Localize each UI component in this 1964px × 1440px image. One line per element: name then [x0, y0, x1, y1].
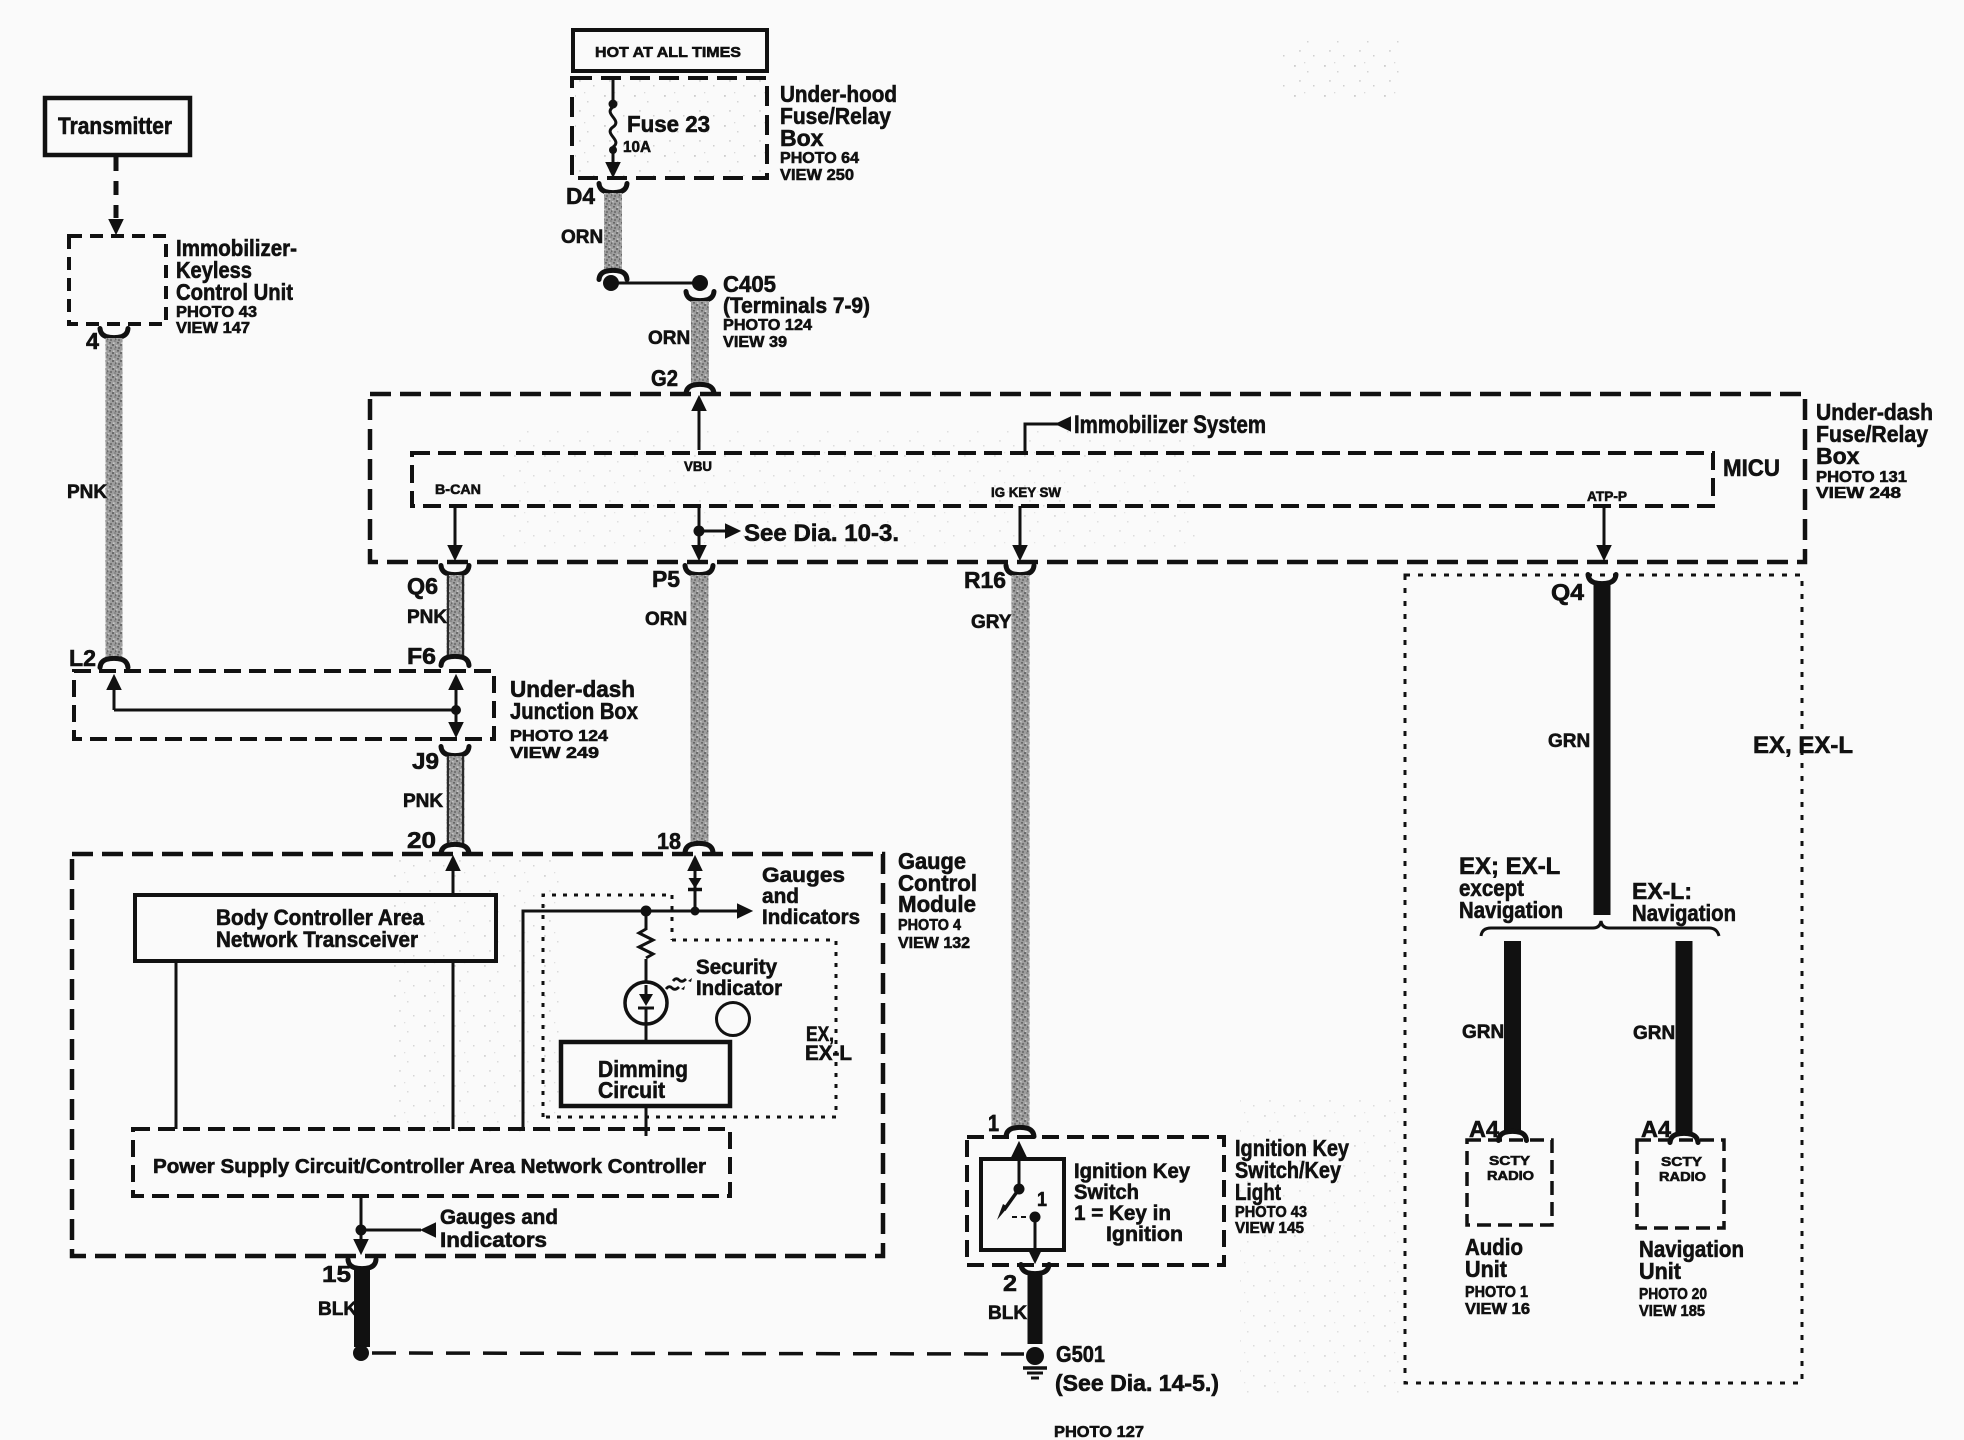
svg-text:B-CAN: B-CAN: [435, 481, 481, 497]
svg-text:PHOTO 20: PHOTO 20: [1639, 1286, 1707, 1303]
svg-text:PHOTO 43: PHOTO 43: [176, 304, 257, 321]
svg-text:A4: A4: [1641, 1116, 1671, 1142]
svg-text:Q6: Q6: [407, 573, 438, 599]
svg-text:VIEW 248: VIEW 248: [1816, 485, 1901, 502]
svg-text:Unit: Unit: [1465, 1256, 1507, 1282]
svg-text:EX, EX-L: EX, EX-L: [1753, 732, 1853, 759]
svg-text:PHOTO 4: PHOTO 4: [898, 917, 961, 934]
svg-text:PHOTO 131: PHOTO 131: [1816, 469, 1907, 486]
svg-text:(See Dia. 14-5.): (See Dia. 14-5.): [1055, 1370, 1219, 1396]
svg-text:EX-L: EX-L: [805, 1042, 852, 1065]
svg-text:PNK: PNK: [403, 791, 443, 812]
svg-text:PHOTO 1: PHOTO 1: [1465, 1284, 1528, 1301]
svg-text:IG KEY SW: IG KEY SW: [991, 484, 1062, 500]
svg-text:VIEW 39: VIEW 39: [723, 334, 787, 351]
svg-text:PHOTO 127: PHOTO 127: [1054, 1424, 1144, 1440]
svg-text:Gauges and: Gauges and: [440, 1206, 558, 1229]
svg-text:ATP-P: ATP-P: [1587, 488, 1627, 504]
svg-text:Junction Box: Junction Box: [510, 698, 638, 724]
svg-text:VIEW 145: VIEW 145: [1235, 1220, 1304, 1237]
svg-text:Q4: Q4: [1551, 579, 1584, 605]
svg-text:SCTY: SCTY: [1489, 1153, 1530, 1168]
svg-text:Transmitter: Transmitter: [58, 113, 172, 140]
svg-text:BLK: BLK: [318, 1299, 357, 1320]
svg-text:RADIO: RADIO: [1659, 1169, 1706, 1184]
svg-text:Unit: Unit: [1639, 1258, 1681, 1284]
svg-text:SCTY: SCTY: [1661, 1154, 1702, 1169]
svg-text:Control Unit: Control Unit: [176, 279, 293, 305]
svg-text:GRN: GRN: [1548, 731, 1590, 752]
svg-text:Box: Box: [1816, 443, 1860, 469]
svg-text:Module: Module: [898, 891, 976, 917]
svg-text:20: 20: [407, 827, 436, 853]
svg-text:HOT AT ALL TIMES: HOT AT ALL TIMES: [595, 44, 741, 61]
svg-text:Navigation: Navigation: [1632, 900, 1736, 926]
svg-text:and: and: [762, 885, 799, 908]
svg-text:Security: Security: [696, 956, 777, 979]
svg-text:Gauges: Gauges: [762, 864, 845, 887]
svg-text:Indicators: Indicators: [440, 1229, 547, 1252]
svg-text:4: 4: [86, 328, 99, 354]
svg-text:VIEW 250: VIEW 250: [780, 167, 854, 184]
svg-text:Ignition Key: Ignition Key: [1074, 1160, 1190, 1183]
svg-text:R16: R16: [964, 567, 1006, 593]
svg-text:J9: J9: [412, 748, 439, 774]
svg-text:18: 18: [657, 828, 681, 854]
svg-text:GRN: GRN: [1633, 1023, 1675, 1044]
svg-text:(Terminals 7-9): (Terminals 7-9): [723, 293, 870, 318]
svg-text:1 = Key in: 1 = Key in: [1074, 1202, 1171, 1225]
svg-text:VIEW 249: VIEW 249: [510, 745, 599, 762]
svg-text:15: 15: [322, 1261, 351, 1287]
svg-text:VIEW 185: VIEW 185: [1639, 1303, 1705, 1320]
svg-text:VIEW 132: VIEW 132: [898, 935, 970, 952]
svg-text:PNK: PNK: [407, 607, 447, 628]
svg-text:BLK: BLK: [988, 1303, 1027, 1324]
svg-text:Light: Light: [1235, 1179, 1281, 1205]
svg-text:1: 1: [988, 1110, 999, 1136]
svg-text:GRN: GRN: [1462, 1022, 1504, 1043]
svg-text:PNK: PNK: [67, 482, 107, 503]
svg-text:PHOTO 124: PHOTO 124: [723, 317, 812, 334]
svg-text:VIEW 147: VIEW 147: [176, 320, 250, 337]
svg-text:G501: G501: [1056, 1341, 1105, 1367]
svg-text:1: 1: [1037, 1189, 1047, 1211]
svg-text:Immobilizer System: Immobilizer System: [1074, 411, 1266, 439]
svg-text:Fuse 23: Fuse 23: [627, 111, 710, 137]
svg-text:See Dia. 10-3.: See Dia. 10-3.: [744, 520, 899, 547]
svg-text:Power Supply Circuit/Controlle: Power Supply Circuit/Controller Area Net…: [153, 1156, 706, 1178]
svg-text:PHOTO 124: PHOTO 124: [510, 728, 608, 745]
svg-text:Indicators: Indicators: [762, 906, 860, 929]
svg-text:Navigation: Navigation: [1459, 897, 1563, 923]
svg-text:A4: A4: [1469, 1116, 1499, 1142]
svg-text:2: 2: [1003, 1270, 1017, 1296]
svg-text:PHOTO 64: PHOTO 64: [780, 150, 859, 167]
svg-text:GRY: GRY: [971, 612, 1012, 633]
svg-text:Switch: Switch: [1074, 1181, 1139, 1204]
svg-text:ORN: ORN: [648, 328, 690, 349]
svg-text:D4: D4: [566, 183, 595, 209]
svg-text:G2: G2: [651, 365, 678, 391]
svg-text:VBU: VBU: [684, 458, 712, 474]
svg-text:Ignition: Ignition: [1106, 1223, 1183, 1246]
svg-text:ORN: ORN: [561, 227, 603, 248]
svg-text:VIEW 16: VIEW 16: [1465, 1301, 1530, 1318]
svg-text:L2: L2: [69, 645, 96, 671]
svg-text:ORN: ORN: [645, 609, 687, 630]
svg-text:Indicator: Indicator: [696, 977, 782, 1000]
svg-text:Box: Box: [780, 125, 824, 151]
svg-text:10A: 10A: [623, 139, 651, 156]
svg-text:F6: F6: [407, 643, 436, 669]
svg-text:PHOTO 43: PHOTO 43: [1235, 1204, 1307, 1221]
svg-text:RADIO: RADIO: [1487, 1168, 1534, 1183]
svg-text:P5: P5: [652, 566, 680, 592]
svg-text:MICU: MICU: [1723, 455, 1780, 482]
svg-text:Circuit: Circuit: [598, 1077, 665, 1103]
svg-text:Network Transceiver: Network Transceiver: [216, 927, 418, 952]
